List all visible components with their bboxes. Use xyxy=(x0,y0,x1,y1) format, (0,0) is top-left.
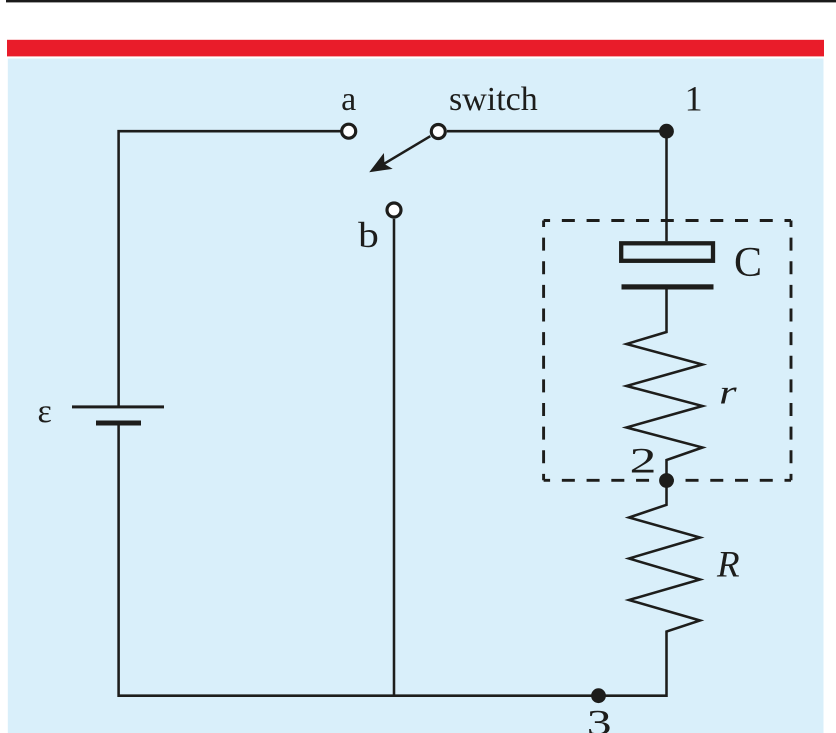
svg-text:3: 3 xyxy=(587,703,612,733)
svg-text:R: R xyxy=(716,545,740,586)
svg-text:ε: ε xyxy=(38,393,52,430)
svg-text:r: r xyxy=(719,373,737,411)
svg-text:switch: switch xyxy=(449,81,538,118)
svg-text:1: 1 xyxy=(685,79,703,119)
svg-text:a: a xyxy=(341,81,356,118)
svg-text:C: C xyxy=(734,240,762,286)
svg-text:b: b xyxy=(358,215,379,255)
svg-text:2: 2 xyxy=(630,440,657,480)
